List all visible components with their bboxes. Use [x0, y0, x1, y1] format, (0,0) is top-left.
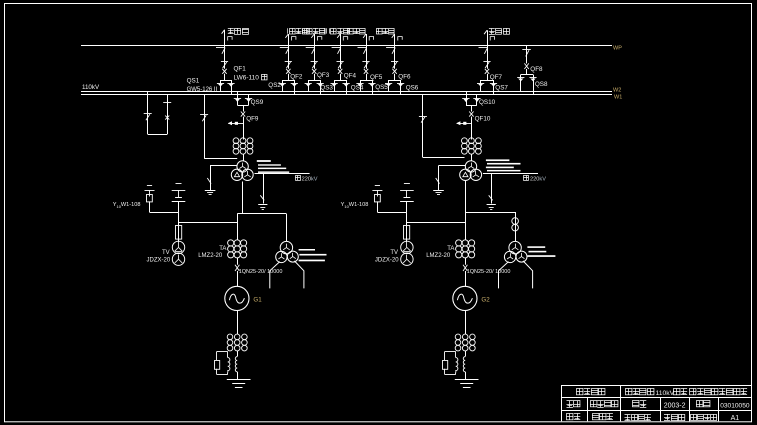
label LMZ2-20 [198, 253, 223, 259]
wire WP to bypass breaker bay [526, 45, 528, 63]
label TA [219, 246, 226, 252]
wire breaker QF2 to junction bar [282, 74, 294, 81]
bus disconnector QS4 W1 side [343, 80, 350, 94]
current transformers TA 110kV (3x3) [462, 138, 482, 154]
ground (transformer neutral) [433, 191, 444, 195]
label Y10W1-108 [341, 202, 369, 209]
bus disconnector QS3 W2 side [305, 80, 312, 91]
generator breaker [463, 265, 467, 271]
ground (transformer neutral) [205, 191, 216, 195]
svg-text:W1: W1 [614, 95, 622, 101]
row3: name value [592, 413, 613, 419]
capacitor to ground (generator bus) [172, 184, 186, 213]
label 1QN25-20/10000 [467, 269, 511, 275]
svg-text:QF2: QF2 [290, 73, 303, 80]
neutral current transformers (3x3) [455, 334, 475, 351]
station transformer nameplate text (illegible bars) [527, 246, 555, 257]
label QF7 [490, 74, 503, 81]
label QS1 [187, 77, 200, 84]
svg-text:2003-2: 2003-2 [664, 403, 686, 410]
wire CT to transformer HV [243, 154, 245, 161]
circuit breaker QF2 [286, 69, 290, 74]
wire feeder line to overhead line (arrow up) [484, 30, 495, 45]
grounding transformer secondary with resistor [443, 352, 458, 375]
svg-text:QF1: QF1 [234, 66, 247, 73]
wire QF9 to transformer CT [243, 117, 245, 140]
fuse of TV [176, 226, 182, 240]
circuit breaker QF3 [312, 69, 316, 74]
wire feeder drop from WP [340, 45, 342, 69]
wire TA to generator breaker [237, 258, 239, 265]
svg-text:QF8: QF8 [530, 66, 543, 73]
svg-text:kV: kV [539, 176, 546, 182]
label TV [162, 250, 170, 256]
wire generator axis upper [465, 212, 467, 240]
wire breaker QF7 to junction bar [481, 74, 494, 81]
HV-side earthing branch (unit 1) [200, 94, 237, 158]
disconnector below WP of bay QF3 [306, 48, 315, 54]
station service transformer LV winding b [287, 251, 298, 262]
svg-text:QS3: QS3 [320, 85, 333, 92]
svg-text:GW5-126 II: GW5-126 II [187, 87, 218, 93]
bus disconnector QS10 W2 side [462, 91, 469, 105]
wire station transformer leg b [294, 261, 304, 289]
label QS6 [406, 84, 419, 91]
wire transformer neutral [438, 166, 465, 191]
label line name JiaoMa line [347, 28, 365, 34]
wire QF8 to junction bar [521, 69, 533, 75]
svg-text:W2: W2 [613, 87, 621, 93]
wire generator to neutral CT [237, 311, 239, 335]
line disconnector of bay QF6 [391, 62, 398, 69]
circuit breaker QF7 [485, 69, 489, 74]
svg-text:TV: TV [162, 250, 170, 256]
main transformer T1 LV winding (delta) [231, 169, 242, 180]
wire reactor to ground [237, 372, 239, 379]
wire TV link to generator axis [407, 222, 465, 224]
label QF9 [246, 115, 259, 122]
station service transformer LV winding a [504, 251, 515, 262]
wire MV lead to 220kV system [483, 173, 538, 175]
svg-text:QS4: QS4 [351, 84, 364, 91]
wire feeder line to overhead line (arrow up) [222, 30, 233, 45]
svg-text:LMZ2-20: LMZ2-20 [198, 253, 223, 259]
label QF4 [344, 73, 357, 80]
svg-text:G2: G2 [481, 297, 490, 304]
bus disconnector QS9 W1 side [245, 94, 252, 105]
label WP [613, 45, 622, 51]
wire MV lead to 220kV system [255, 173, 310, 175]
label G1 [253, 297, 262, 304]
wire TV link to generator axis [179, 222, 238, 224]
bus disconnector QS4 W2 side [331, 80, 338, 91]
label QS7 [495, 85, 508, 92]
svg-text:TA: TA [219, 246, 226, 252]
svg-text:LW6-110: LW6-110 [234, 75, 260, 82]
wire breaker QF4 to junction bar [334, 74, 346, 81]
wire feeder drop from WP [366, 45, 368, 69]
bus branch disconnector left (from W2) [144, 91, 152, 134]
label W2 [613, 87, 621, 93]
main transformer T2 MV winding (Y) [470, 169, 481, 180]
svg-text:QS1: QS1 [187, 77, 200, 84]
svg-text:QF9: QF9 [246, 115, 259, 122]
circuit breaker QF6 [392, 69, 396, 74]
svg-text:110kV: 110kV [655, 390, 674, 397]
label to-220kV [524, 175, 547, 182]
wire QF10 to transformer CT [471, 117, 473, 140]
wire breaker QF1 to junction bar [221, 74, 232, 81]
main transformer T2 LV winding (delta) [460, 169, 471, 180]
label QF3 [317, 72, 330, 79]
wire breaker to generator [465, 271, 467, 286]
svg-text:A1: A1 [731, 415, 740, 422]
wire feeder drop from WP [487, 45, 489, 69]
wire QS10 to QF10 [471, 106, 473, 112]
wire breaker QF5 to junction bar [360, 74, 372, 81]
station transformer nameplate text (illegible bars) [299, 249, 327, 261]
row3: supervisor label [625, 415, 651, 421]
wire generator axis upper [237, 214, 239, 240]
circuit breaker QF5 [364, 69, 368, 74]
wire feeder drop from WP [224, 45, 226, 69]
wire feeder drop from WP [314, 45, 316, 69]
disconnector below WP of bay QF6 [386, 48, 395, 54]
wire TV branch [406, 212, 408, 242]
current transformers TA 110kV (3x3) [233, 138, 253, 154]
row2: class label [633, 401, 647, 408]
svg-text:W1-108: W1-108 [349, 202, 369, 208]
label QS3 [320, 85, 333, 92]
bus disconnector QS3 W1 side [317, 80, 324, 94]
label 1QN25-20/10000 [239, 269, 283, 275]
row2: student-no label [696, 401, 710, 408]
wire station transformer leg b [523, 261, 533, 289]
line disconnector of bay QF1 [221, 62, 228, 69]
label 110kV [82, 84, 100, 91]
svg-text:QS7: QS7 [495, 85, 508, 92]
bus disconnector QS1 W2 side [217, 80, 224, 91]
circuit breaker QF9 [241, 112, 245, 117]
title cell: drawing name text [626, 388, 748, 396]
bus disconnector QS2 W1 side [291, 80, 298, 94]
wire generator to neutral CT [465, 311, 467, 335]
bypass bus WP [81, 45, 612, 47]
svg-text:QF10: QF10 [475, 115, 491, 122]
bus disconnector QS9 W2 side [234, 91, 241, 105]
current transformers TA generator (3x3) [228, 240, 247, 258]
grounding transformer primary coil [235, 357, 237, 372]
current transformers on station transformer lead [512, 218, 519, 231]
main transformer T2 HV winding (Y) [465, 161, 476, 172]
svg-text:QS2: QS2 [268, 82, 281, 89]
title block table [561, 386, 752, 422]
svg-text:110kV: 110kV [82, 84, 100, 91]
station service transformer HV winding [509, 241, 521, 253]
bus disconnector QS6 W2 side [385, 80, 392, 91]
wire arrester link [150, 212, 179, 214]
wire to station service transformer [286, 214, 288, 242]
arrester Y10W1-108 (unit 2) [372, 186, 382, 213]
svg-text:G1: G1 [253, 297, 262, 304]
wire feeder line to overhead line (arrow up) [337, 34, 348, 45]
label QF6 [398, 73, 411, 80]
svg-text:QS5: QS5 [375, 84, 388, 91]
voltage transformer TV windings [401, 241, 413, 265]
transformer nameplate text (illegible bars) [486, 159, 521, 171]
label QS8 [535, 81, 548, 88]
svg-text:WP: WP [613, 45, 622, 51]
wire reactor to ground [465, 372, 467, 379]
capacitor to ground (generator bus) [400, 184, 414, 213]
station service transformer LV winding a [276, 251, 287, 262]
circuit breaker QF4 [338, 69, 342, 74]
label QS4 [351, 84, 364, 91]
line disconnector of bay QF3 [311, 62, 318, 69]
bus branch disconnector right (from W1) [163, 94, 171, 134]
main bus W2 110kV [81, 91, 612, 93]
wire LV junction to generator axis [237, 213, 286, 215]
label line name bus-tie line I [288, 28, 309, 34]
label QF2 [290, 73, 303, 80]
svg-text:LMZ2-20: LMZ2-20 [426, 253, 451, 259]
svg-text:JDZX-20: JDZX-20 [375, 257, 399, 263]
row2: department label [567, 401, 581, 408]
current transformers TA generator (3x3) [456, 240, 475, 258]
HV-side earthing branch (unit 2) [419, 94, 465, 157]
svg-text:JDZX-20: JDZX-20 [147, 257, 171, 263]
bus disconnector QS2 W2 side [279, 80, 286, 91]
svg-text:1QN25-20/ 10000: 1QN25-20/ 10000 [467, 269, 511, 275]
label to-220kV [295, 175, 318, 182]
ground (220kV lead) [487, 205, 496, 210]
label GW5-126 II disconnector model [187, 87, 218, 93]
disconnector below WP of bay QF8 [522, 50, 531, 57]
label QF8 [530, 66, 543, 73]
wire breaker QF3 to junction bar [308, 74, 320, 81]
wire arrester link [377, 212, 407, 214]
label QF1 [234, 66, 247, 73]
fuse of TV [404, 226, 410, 240]
wire QS9 to QF9 [243, 106, 245, 112]
wire transformer LV lead [242, 182, 244, 214]
bus disconnector QS7 W2 side [477, 80, 484, 91]
svg-text:QF5: QF5 [370, 74, 383, 81]
svg-text:220: 220 [302, 176, 311, 182]
label G2 [481, 297, 490, 304]
voltage transformer TV windings [172, 241, 184, 265]
row2: department value [590, 401, 618, 408]
power-flow arrow [228, 121, 243, 125]
label QF10 [475, 115, 491, 122]
220kV lead earthing switch [489, 174, 493, 204]
svg-text:QF4: QF4 [344, 73, 357, 80]
row2: class value 2003-2 [664, 403, 686, 410]
220kV lead earthing switch [260, 174, 264, 204]
wire station transformer leg a [270, 262, 280, 289]
arrester Y10W1-108 (unit 1) [145, 186, 155, 213]
main transformer T1 HV winding (Y) [237, 161, 248, 172]
row3: name label [567, 413, 581, 419]
bus disconnector QS8 W1 side [529, 75, 536, 95]
bus disconnector QS7 W1 side [490, 80, 497, 94]
ground (generator neutral) [455, 380, 479, 388]
disconnector below WP of bay QF5 [358, 48, 367, 54]
label W1 [614, 95, 622, 101]
svg-text:QS9: QS9 [251, 99, 264, 106]
bus disconnector QS5 W2 side [356, 80, 363, 91]
label QS9 [251, 99, 264, 106]
label LW6-110 breaker model [234, 74, 268, 82]
circuit breaker QF1 [222, 69, 226, 74]
label line name bus-tie line II [303, 28, 326, 34]
label line name bus-tie line III [325, 28, 350, 34]
grounding transformer secondary with resistor [215, 352, 230, 375]
bus disconnector QS10 W1 side [473, 94, 480, 105]
bus disconnector QS8 W2 side [517, 75, 524, 92]
wire breaker QF6 to junction bar [389, 74, 401, 81]
svg-text:TV: TV [390, 250, 398, 256]
wire CT to grounding reactor [465, 351, 467, 357]
generator G2 [453, 286, 477, 310]
wire feeder drop from WP [288, 45, 290, 69]
power-flow arrow [456, 121, 471, 125]
neutral current transformers (3x3) [227, 334, 247, 351]
neutral earthing disconnector [436, 178, 440, 184]
svg-text:1QN25-20/ 10000: 1QN25-20/ 10000 [239, 269, 283, 275]
label line name JiaoWu line [376, 28, 394, 34]
label LMZ2-20 [426, 253, 451, 259]
generator G1 [225, 286, 249, 310]
title cell: drawing-name label [577, 388, 605, 394]
line disconnector of bay QF7 [483, 62, 490, 69]
line disconnector of bay QF5 [362, 62, 369, 69]
label TV [390, 250, 398, 256]
disconnector below WP of bay QF1 [216, 48, 225, 54]
wire transformer LV lead [465, 180, 467, 222]
label QF5 [370, 74, 383, 81]
wire CT to transformer HV [471, 154, 473, 161]
label QS2 [268, 82, 281, 89]
transformer nameplate text (illegible bars) [257, 160, 289, 173]
ground (generator neutral) [227, 380, 251, 388]
wire station transformer leg a [499, 262, 509, 289]
svg-text:QS10: QS10 [479, 99, 496, 106]
svg-text:TA: TA [447, 246, 454, 252]
wire CT to grounding reactor [237, 351, 239, 357]
neutral earthing disconnector [207, 178, 211, 184]
svg-text:220: 220 [530, 176, 539, 182]
label JDZX-20 [375, 257, 399, 263]
line disconnector of bay QF4 [337, 62, 344, 69]
svg-text:W1-108: W1-108 [121, 202, 141, 208]
wire breaker to generator [237, 271, 239, 286]
svg-text:03010050: 03010050 [720, 403, 750, 410]
bus disconnector QS5 W1 side [368, 80, 375, 94]
wire transformer neutral [210, 166, 237, 191]
row3: sheet-size value A1 [731, 415, 740, 422]
label QS10 [479, 99, 496, 106]
wire joining bus branch pair [148, 134, 168, 136]
row2: student-no value 03010050 [720, 403, 750, 410]
wire feeder line to overhead line (arrow up) [363, 34, 374, 45]
label QS5 [375, 84, 388, 91]
station service transformer HV winding [280, 241, 292, 253]
wire TV branch [178, 212, 180, 242]
svg-text:QF6: QF6 [398, 73, 411, 80]
wire to station service transformer [515, 212, 517, 242]
row3: supervisor value [664, 414, 685, 421]
wire LV junction to station transformer [465, 212, 515, 214]
main bus W1 110kV [81, 94, 612, 96]
label TA [447, 246, 454, 252]
wire feeder line to overhead line (arrow up) [311, 34, 322, 45]
ground (220kV lead) [258, 205, 267, 210]
svg-text:kV: kV [311, 176, 318, 182]
row3: sheet-size label [691, 414, 717, 420]
wire feeder line to overhead line (arrow up) [392, 34, 403, 45]
svg-text:QF3: QF3 [317, 72, 330, 79]
svg-text:QS8: QS8 [535, 81, 548, 88]
wire feeder drop from WP [394, 45, 396, 69]
svg-text:QF7: QF7 [490, 74, 503, 81]
wire TA to generator breaker [465, 258, 467, 265]
bus disconnector QS1 W1 side [227, 80, 234, 94]
station service transformer LV winding b [516, 251, 527, 262]
wire feeder line to overhead line (arrow up) [285, 34, 296, 45]
line disconnector of bay QF2 [285, 62, 292, 69]
label line name JiaoNan-xian (feeder 7) [489, 28, 509, 34]
circuit breaker QF10 [469, 112, 473, 117]
label JDZX-20 [147, 257, 171, 263]
disconnector below WP of bay QF7 [479, 48, 488, 54]
circuit breaker QF8 [524, 63, 528, 69]
grounding transformer primary coil [463, 357, 465, 372]
label Y10W1-108 [113, 202, 141, 209]
svg-text:QS6: QS6 [406, 84, 419, 91]
main transformer T1 MV winding (Y) [242, 169, 253, 180]
wire junction bar of QS9 [238, 105, 249, 107]
disconnector below WP of bay QF2 [280, 48, 289, 54]
bus disconnector QS6 W1 side [397, 80, 404, 94]
label line name JiaoJi-xian (feeder 1) [228, 28, 249, 34]
wire junction bar of QS10 [466, 105, 477, 107]
disconnector below WP of bay QF4 [332, 48, 341, 54]
generator breaker [235, 265, 239, 271]
